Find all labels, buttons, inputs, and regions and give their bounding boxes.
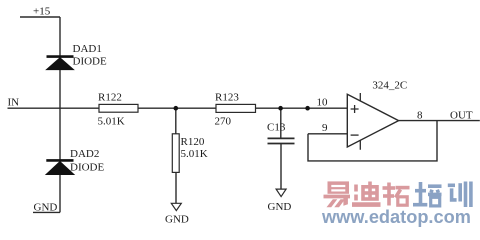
label GND (bottom-left) <box>34 202 58 214</box>
watermark url www.edatop.com <box>321 207 471 227</box>
svg-text:+15: +15 <box>33 6 51 18</box>
svg-text:IN: IN <box>8 97 20 109</box>
pin 10 <box>317 97 329 109</box>
ground symbol (under R120) <box>171 203 181 210</box>
ground symbol (under C13) <box>276 189 286 197</box>
label OUT <box>450 109 473 121</box>
svg-text:324_2C: 324_2C <box>372 79 407 91</box>
node junction at C13 tap <box>278 106 283 111</box>
wire: junction to R120 <box>175 108 177 134</box>
node junction near op-amp input <box>305 106 310 111</box>
value 5.01K (R122) <box>98 116 125 128</box>
svg-text:270: 270 <box>215 116 232 128</box>
wire: output to OUT <box>399 120 480 122</box>
op-amp U 324_2C <box>347 93 398 150</box>
wire: +15 rail vertical through diodes to GND <box>59 17 61 212</box>
label DIODE (DAD2) <box>70 162 104 174</box>
wire: feedback loop from pin 9 to output <box>308 121 437 161</box>
label GND (under R120) <box>165 214 189 226</box>
label R123 <box>215 92 239 104</box>
svg-text:DAD2: DAD2 <box>70 148 99 160</box>
svg-text:DIODE: DIODE <box>73 56 107 68</box>
value 5.01K (R120) <box>181 148 208 160</box>
capacitor C13 <box>268 138 295 143</box>
label DAD2 <box>70 148 99 160</box>
label +15 <box>33 6 51 18</box>
svg-text:R122: R122 <box>98 92 122 104</box>
svg-text:C13: C13 <box>267 122 286 134</box>
diode DAD2 <box>46 160 74 174</box>
label 324_2C <box>372 79 407 91</box>
wire: main horizontal net IN to op-amp <box>8 107 348 109</box>
svg-text:R120: R120 <box>181 136 205 148</box>
watermark char 培 <box>413 182 442 206</box>
node junction on IN net at R120 tap <box>174 106 179 111</box>
svg-text:GND: GND <box>165 214 189 226</box>
watermark char 迪 <box>352 182 381 205</box>
svg-text:www.edatop.com: www.edatop.com <box>321 207 471 227</box>
svg-text:9: 9 <box>322 122 328 134</box>
wire: junction to C13 top plate <box>280 108 282 138</box>
svg-text:GND: GND <box>268 201 292 213</box>
label C13 <box>267 122 286 134</box>
wire: C13 bottom plate to ground symbol <box>280 144 282 189</box>
label R120 <box>181 136 205 148</box>
svg-text:10: 10 <box>317 97 329 109</box>
pin 9 <box>322 122 328 134</box>
svg-text:GND: GND <box>34 202 58 214</box>
watermark char 训 <box>448 182 471 208</box>
pin 8 <box>417 109 423 121</box>
svg-text:OUT: OUT <box>450 109 473 121</box>
resistor R120 (vertical) <box>172 134 179 173</box>
label DAD1 <box>73 43 102 55</box>
label IN <box>8 97 20 109</box>
watermark char 易 <box>324 181 351 207</box>
ground net GND (bottom-left stub) <box>33 211 60 213</box>
label DIODE (DAD1) <box>73 56 107 68</box>
watermark char 拓 <box>383 183 410 206</box>
value 270 (R123) <box>215 116 232 128</box>
svg-text:DAD1: DAD1 <box>73 43 102 55</box>
svg-text:5.01K: 5.01K <box>98 116 125 128</box>
wire: R120 to ground symbol <box>175 172 177 203</box>
power net +15 <box>20 16 60 18</box>
resistor R123 <box>216 104 256 112</box>
label GND (under C13) <box>268 201 292 213</box>
label R122 <box>98 92 122 104</box>
svg-text:5.01K: 5.01K <box>181 148 208 160</box>
wire: pin 9 input <box>308 133 347 135</box>
resistor R122 <box>99 104 138 112</box>
svg-text:R123: R123 <box>215 92 239 104</box>
svg-text:DIODE: DIODE <box>70 162 104 174</box>
diode DAD1 <box>47 57 74 70</box>
svg-text:8: 8 <box>417 109 423 121</box>
